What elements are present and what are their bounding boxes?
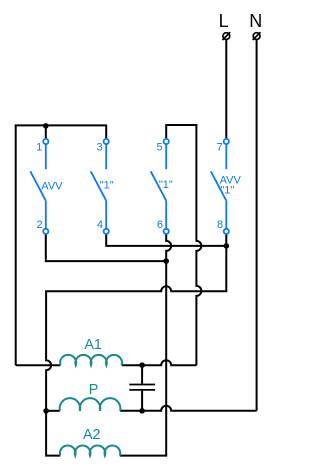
wire P row left [46, 410, 60, 412]
node P left junction [43, 408, 49, 414]
node S4-S8 junction [224, 243, 230, 249]
coil A1 [60, 355, 122, 365]
wire S1 stub [45, 125, 47, 138]
switch S1 (AVV) pins 1-2 [30, 139, 48, 234]
svg-text:AVV: AVV [41, 181, 63, 193]
svg-text:P: P [89, 382, 99, 398]
svg-text:1: 1 [36, 142, 42, 154]
wire S8 return to coils (hop up at x166, hop right at A1 row) [46, 234, 226, 455]
wire S5 bracket and drop to A1 row (hops at y246 and y291) [166, 125, 201, 365]
svg-text:A2: A2 [83, 427, 101, 443]
svg-text:5: 5 [156, 142, 162, 154]
terminal L [222, 32, 230, 40]
node cap top junction [139, 362, 145, 368]
wire left rail [15, 125, 17, 365]
svg-text:"1": "1" [220, 185, 234, 197]
switch S3 ("1") pins 3-4 [91, 139, 109, 234]
svg-text:8: 8 [217, 219, 223, 231]
svg-text:"1": "1" [100, 180, 114, 192]
node S2-S6 junction [163, 258, 169, 264]
wire S3 stub [105, 124, 107, 138]
svg-text:3: 3 [96, 142, 102, 154]
svg-text:4: 4 [97, 219, 103, 231]
node bus-S1 junction [43, 123, 49, 129]
svg-text:"1": "1" [159, 179, 173, 191]
switch S5 ("1") pins 5-6 [151, 139, 169, 234]
svg-text:N: N [249, 11, 262, 31]
wire S2 to S6 column [46, 234, 166, 261]
coil A2 [60, 445, 120, 455]
wire A1 row left [16, 364, 61, 366]
node cap bottom junction [139, 408, 145, 414]
svg-text:6: 6 [157, 219, 163, 231]
wire N rail to P row [256, 40, 258, 411]
terminal N [253, 32, 261, 40]
wire L rail [225, 40, 227, 139]
wire P row right to N rail (hop up at x166) [120, 406, 257, 411]
switch S7 (AVV "1") pins 7-8 [211, 139, 229, 234]
wire top bus [15, 124, 107, 126]
svg-text:7: 7 [217, 142, 223, 154]
wire S6 down to A2 right (hop at y246) [120, 234, 171, 455]
svg-text:L: L [219, 11, 229, 31]
wire S4 to S8 column [106, 234, 226, 246]
coil P [60, 398, 121, 411]
wire A1 row right (hop up at x166) [122, 360, 197, 365]
svg-text:2: 2 [36, 219, 42, 231]
capacitor C1 [129, 365, 155, 411]
svg-text:A1: A1 [84, 337, 102, 353]
